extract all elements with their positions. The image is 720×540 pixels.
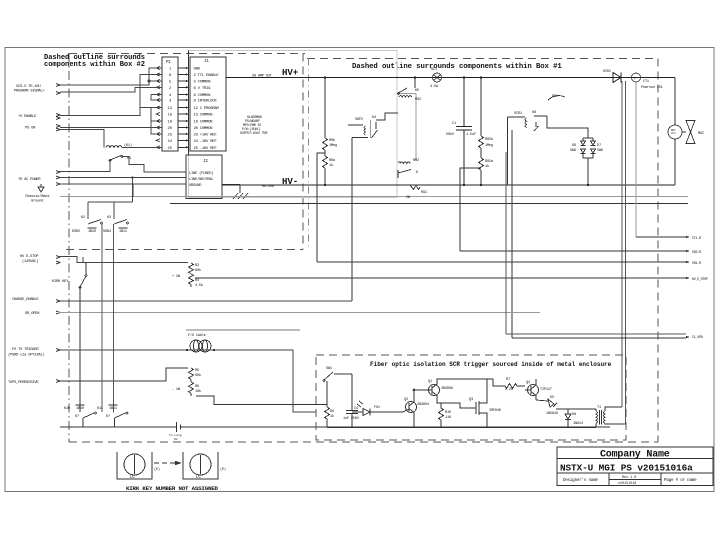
svg-text:TVPS_PERMISSIVE: TVPS_PERMISSIVE bbox=[8, 381, 39, 385]
svg-text:LINE/NEUTRAL: LINE/NEUTRAL bbox=[189, 177, 214, 182]
svg-text:(E): (E) bbox=[154, 467, 160, 472]
svg-text:SW1: SW1 bbox=[326, 367, 332, 371]
wire CT1 signal to CT1-R bbox=[636, 236, 686, 238]
wire C1 voltage feedback B bbox=[512, 337, 686, 339]
J2 ground stub bbox=[222, 185, 240, 194]
svg-text:RG1: RG1 bbox=[421, 191, 427, 195]
bottom contacts bbox=[83, 412, 128, 427]
svg-text:FO TX TRIGGER: FO TX TRIGGER bbox=[12, 348, 39, 352]
fiber optic box dashed bbox=[316, 355, 626, 440]
svg-text:1N5819: 1N5819 bbox=[546, 412, 558, 416]
R5 R6 divider bbox=[60, 368, 327, 405]
svg-text:1k: 1k bbox=[329, 163, 333, 168]
svg-text:D7: D7 bbox=[597, 144, 601, 148]
fuse RL1 bbox=[433, 73, 442, 82]
svg-text:D5: D5 bbox=[550, 396, 554, 400]
relay RS2 bbox=[398, 94, 416, 161]
svg-text:9 INTERLOCK: 9 INTERLOCK bbox=[194, 100, 218, 104]
svg-text:v20151016: v20151016 bbox=[618, 482, 636, 486]
power supply block J1 bbox=[189, 51, 227, 156]
kirk key arrow bbox=[154, 462, 176, 464]
svg-text:CT1-R: CT1-R bbox=[692, 237, 701, 241]
svg-text:Chassis/Rack: Chassis/Rack bbox=[25, 194, 50, 199]
wire node stub y330 bbox=[186, 329, 300, 331]
svg-text:K2: K2 bbox=[107, 216, 111, 220]
svg-text:5W9: 5W9 bbox=[597, 149, 603, 153]
svg-text:5W9: 5W9 bbox=[570, 149, 576, 153]
svg-text:R4: R4 bbox=[195, 279, 199, 283]
FO trigger wire bbox=[60, 350, 316, 412]
svg-text:DSR2: DSR2 bbox=[72, 230, 80, 234]
svg-text:T1: T1 bbox=[597, 406, 601, 410]
R3 R4 divider bbox=[189, 263, 215, 287]
svg-text:K5: K5 bbox=[415, 89, 419, 93]
svg-text:1B11: 1B11 bbox=[119, 230, 127, 234]
MGI valve bbox=[668, 78, 695, 186]
svg-text:VCS-U TE-10U: VCS-U TE-10U bbox=[16, 85, 41, 89]
svg-text:R10: R10 bbox=[445, 411, 451, 415]
svg-text:Designer's name: Designer's name bbox=[563, 478, 598, 483]
svg-text:J1: J1 bbox=[204, 60, 209, 64]
relay contact K1 bbox=[109, 156, 123, 162]
svg-text:1uF 250V: 1uF 250V bbox=[343, 417, 360, 421]
svg-text:components within Box #2: components within Box #2 bbox=[44, 61, 145, 69]
svg-text:NSTX-U MGI PS v20151016a: NSTX-U MGI PS v20151016a bbox=[560, 463, 693, 474]
svg-text:10k: 10k bbox=[195, 389, 201, 394]
svg-text:4.5k: 4.5k bbox=[195, 283, 203, 288]
capacitor C1 bbox=[463, 78, 465, 186]
svg-text:TIP127: TIP127 bbox=[540, 388, 552, 392]
svg-text:- 1W: - 1W bbox=[172, 388, 181, 392]
svg-text:RETURN: RETURN bbox=[262, 185, 274, 189]
wire VD2 divider output bbox=[460, 250, 686, 252]
svg-text:R3: R3 bbox=[195, 264, 199, 268]
wire ground bbox=[60, 183, 186, 185]
box 1 dashed outline bbox=[307, 59, 658, 443]
svg-text:(E): (E) bbox=[220, 467, 226, 472]
relay contacts K2 K3 bbox=[88, 178, 133, 220]
left terminal chevrons bbox=[56, 84, 60, 383]
kirk key symbol A bbox=[117, 452, 152, 479]
P1-J1 interconnect wires bbox=[178, 68, 188, 147]
P1 pin arrows bbox=[156, 67, 160, 149]
svg-text:C1_VFB: C1_VFB bbox=[692, 336, 703, 340]
transistor Q2 bbox=[378, 390, 417, 428]
svg-text:Q4: Q4 bbox=[526, 381, 530, 385]
svg-text:Dashed outline surrounds compo: Dashed outline surrounds components with… bbox=[352, 63, 562, 71]
svg-text:24: 24 bbox=[168, 140, 173, 144]
svg-text:R5: R5 bbox=[195, 369, 199, 373]
svg-text:90k: 90k bbox=[195, 268, 201, 273]
bottom rail wire bbox=[60, 426, 610, 428]
svg-text:24 -10V REF: 24 -10V REF bbox=[194, 140, 218, 144]
wire C1 voltage feedback A bbox=[506, 152, 686, 334]
svg-text:Rev 1.0: Rev 1.0 bbox=[622, 476, 636, 480]
svg-text:C1: C1 bbox=[452, 122, 456, 126]
wire line fused bbox=[60, 160, 110, 172]
SCR1 gate wires bbox=[622, 81, 626, 424]
connector P1 bbox=[162, 57, 178, 151]
wire DR_OPEN bbox=[58, 312, 540, 314]
svg-text:Company Name: Company Name bbox=[600, 450, 670, 461]
svg-text:D6: D6 bbox=[572, 144, 576, 148]
wire ground bus gray bbox=[60, 196, 688, 198]
svg-text:LINE (FUSED): LINE (FUSED) bbox=[189, 171, 213, 176]
right terminal arrows bbox=[686, 236, 690, 338]
svg-text:19 COMMON: 19 COMMON bbox=[194, 121, 214, 125]
resistor R10 bbox=[439, 403, 444, 427]
svg-text:(120VAC): (120VAC) bbox=[22, 259, 38, 264]
svg-text:R0b: R0b bbox=[329, 138, 335, 143]
svg-text:4.5A: 4.5A bbox=[430, 85, 439, 89]
svg-text:D8: D8 bbox=[572, 413, 576, 417]
wire ground drop at x133 bbox=[132, 184, 134, 197]
svg-text:RR2: RR2 bbox=[413, 159, 419, 163]
diode D8 bbox=[565, 409, 571, 428]
svg-text:SCR1: SCR1 bbox=[514, 112, 522, 116]
svg-text:+ 2W: + 2W bbox=[172, 275, 181, 279]
svg-text:1Meg: 1Meg bbox=[485, 144, 493, 148]
svg-text:KIRK KEY NUMBER NOT ASSIGNED: KIRK KEY NUMBER NOT ASSIGNED bbox=[126, 485, 219, 492]
svg-text:PS ON: PS ON bbox=[25, 127, 35, 131]
svg-text:1k: 1k bbox=[330, 414, 334, 419]
Glassman PS description bbox=[240, 116, 267, 136]
wire VD1 divider output bbox=[317, 261, 686, 263]
R2 divider chain bbox=[460, 78, 484, 252]
resistor R9 bbox=[325, 407, 330, 428]
svg-text:1Meg: 1Meg bbox=[329, 144, 337, 148]
HV E-STOP wiring bbox=[60, 257, 188, 263]
wire program- bbox=[60, 87, 162, 92]
mosfet Q3 bbox=[441, 379, 487, 428]
svg-text:HV E-STOP: HV E-STOP bbox=[20, 255, 39, 259]
svg-text:F: F bbox=[634, 78, 636, 82]
svg-text:Pearson 101: Pearson 101 bbox=[641, 85, 663, 90]
svg-text:To Long: To Long bbox=[169, 434, 182, 437]
svg-text:R02b: R02b bbox=[485, 137, 493, 142]
svg-text:6 V TRIG: 6 V TRIG bbox=[194, 87, 212, 91]
svg-text:LC: LC bbox=[130, 476, 135, 480]
svg-text:K?: K? bbox=[106, 415, 110, 419]
kirk key symbol B bbox=[183, 452, 218, 479]
long bus HV+ bbox=[226, 77, 675, 79]
diode D5 bbox=[536, 399, 568, 409]
fiber box bottom rail bbox=[327, 427, 596, 429]
svg-text:2 TTL ENABLE: 2 TTL ENABLE bbox=[194, 74, 220, 78]
svg-text:VD1-R: VD1-R bbox=[692, 262, 701, 266]
svg-text:13: 13 bbox=[168, 107, 173, 111]
svg-text:VLV: VLV bbox=[671, 132, 676, 135]
svg-text:13 COMMON: 13 COMMON bbox=[194, 114, 214, 118]
svg-text:SCR1: SCR1 bbox=[603, 70, 611, 74]
svg-text:HV+: HV+ bbox=[282, 68, 298, 78]
Glassman PS enclosure (faint) bbox=[189, 51, 398, 198]
svg-text:RS2: RS2 bbox=[415, 98, 421, 102]
svg-text:2N3904: 2N3904 bbox=[417, 403, 429, 407]
svg-text:RL1: RL1 bbox=[431, 68, 437, 72]
svg-text:KIRK KEY: KIRK KEY bbox=[52, 280, 69, 284]
svg-text:OUTPUT:15kV 75M: OUTPUT:15kV 75M bbox=[240, 131, 267, 136]
svg-text:HV_E_STOP: HV_E_STOP bbox=[692, 278, 708, 282]
transistor Q4 bbox=[525, 379, 539, 400]
svg-text:90k: 90k bbox=[195, 373, 201, 378]
svg-text:R9: R9 bbox=[330, 410, 334, 414]
svg-text:5 COMMON: 5 COMMON bbox=[194, 81, 212, 85]
SCR1 device bbox=[613, 73, 621, 83]
svg-text:K11: K11 bbox=[97, 407, 103, 411]
svg-text:2N3906: 2N3906 bbox=[441, 387, 453, 391]
wire neutral bus bbox=[170, 203, 688, 205]
svg-text:R7: R7 bbox=[506, 378, 510, 382]
svg-text:R02a: R02a bbox=[485, 160, 494, 164]
enclosure dashed outline left bbox=[69, 54, 658, 443]
svg-text:19: 19 bbox=[168, 121, 173, 125]
svg-text:R6: R6 bbox=[195, 385, 199, 389]
svg-text:J2: J2 bbox=[203, 160, 208, 164]
svg-text:Q2: Q2 bbox=[404, 398, 408, 402]
svg-text:FO1: FO1 bbox=[374, 406, 380, 410]
svg-text:SGN4: SGN4 bbox=[103, 230, 111, 234]
svg-text:18: 18 bbox=[168, 114, 173, 118]
svg-text:K?: K? bbox=[75, 415, 79, 419]
chassis ground symbol bbox=[38, 184, 44, 192]
svg-text:DR_OPEN: DR_OPEN bbox=[25, 312, 39, 316]
svg-text:(PSRD via OPT22AL): (PSRD via OPT22AL) bbox=[8, 353, 45, 358]
R0 divider chain bbox=[317, 78, 328, 263]
svg-text:K10: K10 bbox=[64, 407, 70, 411]
svg-text:1k: 1k bbox=[485, 164, 489, 169]
relay coil K1 bbox=[106, 146, 122, 148]
wire ps-on bbox=[60, 127, 162, 129]
transistor Q1 bbox=[413, 379, 487, 403]
svg-text:K8: K8 bbox=[532, 111, 536, 115]
svg-text:23: 23 bbox=[168, 134, 173, 138]
battery bbox=[177, 422, 181, 432]
svg-text:IRF640: IRF640 bbox=[489, 409, 501, 413]
svg-text:K2: K2 bbox=[81, 216, 85, 220]
svg-text:F/O Cable: F/O Cable bbox=[188, 333, 206, 338]
connector J2 bbox=[186, 155, 222, 199]
svg-text:110: 110 bbox=[445, 416, 451, 420]
AC power wires bbox=[60, 157, 186, 185]
wire +V enable bbox=[60, 75, 162, 116]
svg-text:20 COMMON: 20 COMMON bbox=[194, 127, 214, 131]
svg-text:Q1: Q1 bbox=[428, 380, 432, 384]
svg-text:1N914: 1N914 bbox=[573, 422, 583, 426]
svg-text:LC: LC bbox=[196, 476, 201, 480]
svg-text:Ground: Ground bbox=[31, 199, 43, 204]
svg-text:8 COMMON: 8 COMMON bbox=[194, 94, 212, 98]
box2 input wires bbox=[60, 68, 162, 148]
svg-text:(K1): (K1) bbox=[124, 143, 132, 148]
svg-text:12 I PROGRAM: 12 I PROGRAM bbox=[194, 107, 220, 111]
photodiode FO1 bbox=[352, 401, 378, 416]
svg-text:Q3: Q3 bbox=[469, 398, 473, 402]
svg-text:SGP2: SGP2 bbox=[355, 118, 363, 122]
svg-text:PROGRAM SIGNAL+: PROGRAM SIGNAL+ bbox=[14, 90, 45, 94]
svg-text:9V: 9V bbox=[174, 438, 178, 441]
capacitor C4 bbox=[334, 374, 358, 428]
svg-text:CT1: CT1 bbox=[643, 80, 649, 84]
svg-text:VD2-R: VD2-R bbox=[692, 251, 701, 255]
wire program+ bbox=[60, 68, 162, 85]
svg-text:25: 25 bbox=[168, 147, 173, 151]
svg-text:TO AC POWER: TO AC POWER bbox=[18, 178, 41, 182]
left input labels bbox=[8, 85, 69, 385]
svg-text:Fiber optic isolation SCR trig: Fiber optic isolation SCR trigger source… bbox=[370, 361, 612, 368]
svg-text:Page # or name: Page # or name bbox=[664, 479, 697, 483]
svg-text:PR1: PR1 bbox=[552, 95, 558, 99]
svg-text:50kV: 50kV bbox=[446, 132, 455, 137]
svg-text:2.2k: 2.2k bbox=[505, 387, 513, 392]
svg-text:25 -10V REF: 25 -10V REF bbox=[194, 147, 218, 151]
svg-text:23 +10V REF: 23 +10V REF bbox=[194, 134, 218, 138]
kirk key switch bbox=[79, 263, 87, 413]
long bus HV return bbox=[222, 184, 675, 186]
resistor R7 bbox=[487, 379, 525, 389]
box 2 dashed outline bbox=[66, 54, 303, 250]
title block bbox=[557, 447, 713, 486]
svg-text:1B10: 1B10 bbox=[88, 230, 96, 234]
svg-text:+V ENABLE: +V ENABLE bbox=[18, 115, 37, 119]
svg-text:1B10: 1B10 bbox=[76, 407, 84, 411]
svg-text:CHARGE_ENABLE: CHARGE_ENABLE bbox=[12, 298, 39, 302]
svg-text:K4: K4 bbox=[372, 116, 376, 120]
charge enable wire bbox=[60, 300, 352, 302]
svg-text:1B11: 1B11 bbox=[109, 407, 117, 411]
svg-text:20: 20 bbox=[168, 127, 173, 131]
svg-text:GND: GND bbox=[194, 68, 201, 72]
svg-text:MGI: MGI bbox=[698, 132, 704, 136]
CT1 Pearson bbox=[632, 73, 641, 82]
relay wire drops bbox=[102, 224, 114, 413]
ground hatch under J2 bbox=[233, 193, 248, 199]
diode bank D6 D7 bbox=[547, 96, 596, 185]
wire neutral bbox=[60, 177, 186, 179]
svg-text:1.5uF: 1.5uF bbox=[466, 133, 476, 137]
wire estop stubs bbox=[82, 257, 84, 263]
svg-text:GROUND: GROUND bbox=[189, 184, 202, 188]
wire E-STOP monitor output bbox=[196, 277, 686, 279]
svg-text:C4: C4 bbox=[354, 407, 358, 411]
svg-text:P1: P1 bbox=[166, 61, 171, 65]
